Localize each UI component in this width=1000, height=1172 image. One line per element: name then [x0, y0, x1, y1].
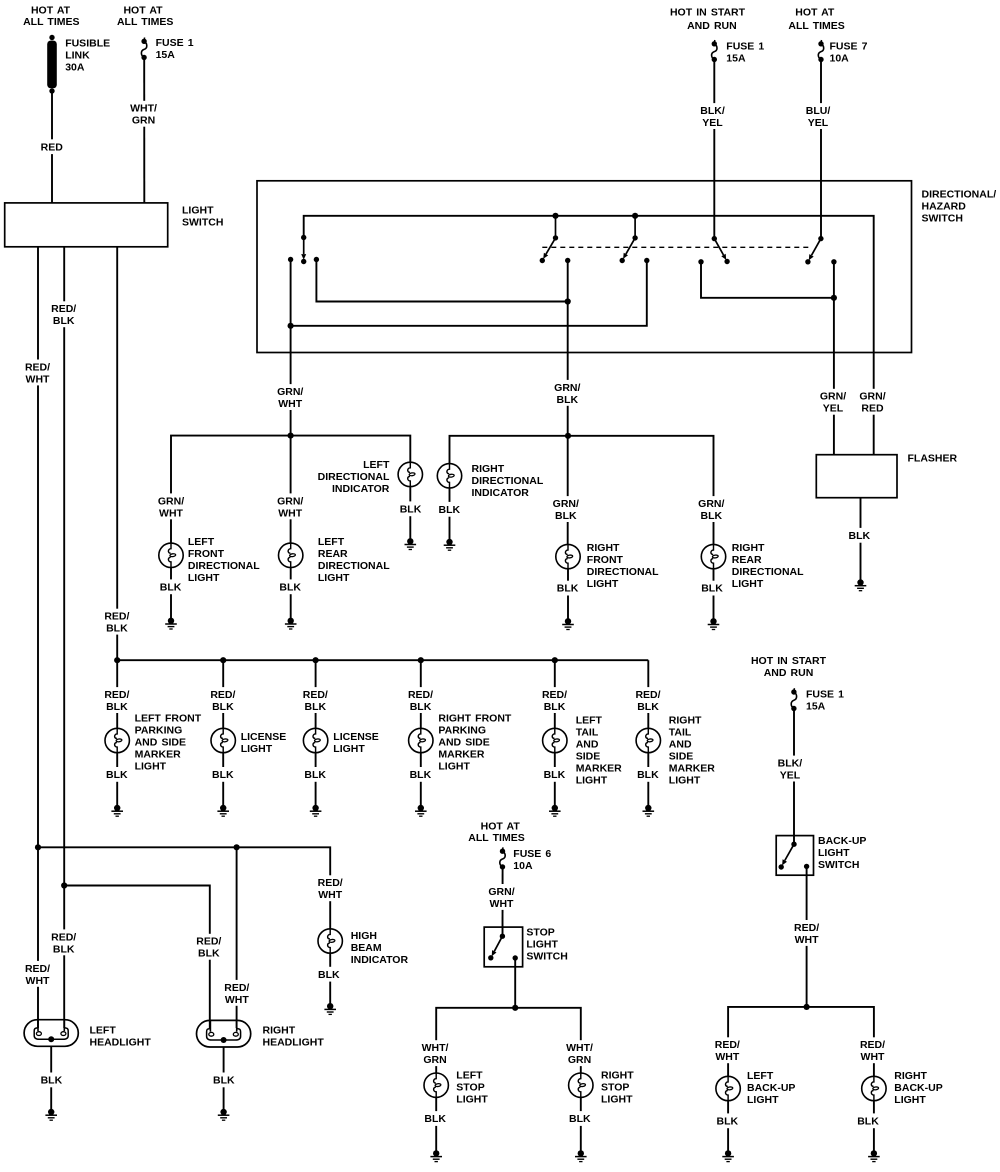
svg-text:MARKER: MARKER	[576, 763, 622, 775]
svg-text:LEFT: LEFT	[188, 536, 215, 548]
svg-text:FUSE 7: FUSE 7	[830, 40, 868, 52]
wire RED/BLK (light switch to parking lamp bus)	[102, 247, 132, 660]
svg-text:BLK: BLK	[544, 701, 566, 713]
left headlight	[24, 1020, 151, 1112]
right hazard-fed switch blade	[805, 236, 823, 265]
svg-text:DIRECTIONAL/: DIRECTIONAL/	[922, 188, 997, 200]
svg-text:BLK: BLK	[304, 769, 326, 781]
fuse F6 10A	[500, 847, 552, 872]
svg-text:GRN/: GRN/	[553, 498, 579, 510]
dashed mechanical linkage	[542, 246, 808, 248]
svg-text:BLK: BLK	[198, 948, 220, 960]
wire: hazard terminal to right output (inside switch)	[288, 260, 647, 329]
wire GRN/YEL (switch to flasher)	[818, 263, 848, 455]
wire WHT/GRN (stop switch to stop lights)	[419, 958, 596, 1073]
svg-text:AND RUN: AND RUN	[764, 667, 814, 679]
svg-text:RED/: RED/	[51, 931, 76, 943]
svg-text:BLK: BLK	[212, 701, 234, 713]
svg-text:BLK: BLK	[106, 701, 128, 713]
ground (left stop light)	[430, 1150, 442, 1161]
svg-text:YEL: YEL	[780, 770, 801, 782]
svg-text:FUSE 1: FUSE 1	[806, 688, 844, 700]
svg-text:FRONT: FRONT	[587, 554, 624, 566]
svg-text:YEL: YEL	[702, 117, 723, 129]
wire GRN/WHT (switch to left directional bus)	[275, 327, 306, 543]
svg-text:FUSE 6: FUSE 6	[513, 848, 551, 860]
svg-text:RED/: RED/	[51, 303, 76, 315]
right headlight	[197, 1020, 325, 1112]
svg-text:SIDE: SIDE	[576, 751, 601, 763]
svg-text:RED/: RED/	[794, 922, 819, 934]
svg-text:LIGHT: LIGHT	[135, 761, 167, 773]
svg-text:BLK: BLK	[106, 769, 128, 781]
light switch S1	[5, 203, 224, 247]
svg-text:INDICATOR: INDICATOR	[472, 487, 530, 499]
svg-text:DIRECTIONAL: DIRECTIONAL	[732, 566, 804, 578]
svg-text:MARKER: MARKER	[135, 749, 181, 761]
wire GRN/RED (switch to flasher)	[858, 353, 888, 455]
wire RED/BLK branch (to right headlight)	[61, 882, 224, 1028]
svg-text:RED: RED	[41, 141, 64, 153]
svg-text:DIRECTIONAL: DIRECTIONAL	[318, 560, 390, 572]
ground (high beam indicator)	[324, 1003, 336, 1014]
svg-text:RED/: RED/	[25, 963, 50, 975]
fusible link 30A	[47, 35, 110, 94]
svg-text:BLK: BLK	[106, 623, 128, 635]
left directional switch blade	[540, 216, 559, 263]
svg-text:RED/: RED/	[224, 982, 249, 994]
svg-text:RIGHT: RIGHT	[263, 1024, 296, 1036]
svg-text:WHT: WHT	[278, 398, 302, 410]
svg-text:PARKING: PARKING	[438, 725, 486, 737]
svg-text:LIGHT: LIGHT	[333, 743, 365, 755]
svg-text:BLK: BLK	[318, 969, 340, 981]
lamp: right front directional light	[556, 542, 660, 622]
ground (flasher)	[855, 579, 867, 590]
svg-text:RED/: RED/	[210, 689, 235, 701]
svg-text:BLK: BLK	[53, 943, 75, 955]
node: HOT AT ALL TIMES (feed 2)	[117, 5, 173, 29]
svg-text:LIGHT: LIGHT	[747, 1094, 779, 1106]
lamp: license light (right)	[303, 728, 379, 808]
svg-text:AND RUN: AND RUN	[687, 20, 737, 32]
svg-text:BLK: BLK	[410, 701, 432, 713]
wire RED/WHT (light switch to left headlight low beam)	[23, 247, 53, 1028]
stop light switch	[484, 927, 568, 967]
svg-text:PARKING: PARKING	[135, 725, 183, 737]
svg-text:LEFT: LEFT	[90, 1024, 117, 1036]
svg-text:ALL TIMES: ALL TIMES	[117, 16, 173, 28]
hazard switch terminals	[288, 257, 319, 262]
back-up light switch	[776, 835, 866, 875]
svg-text:10A: 10A	[513, 860, 533, 872]
svg-text:LIGHT: LIGHT	[456, 1093, 488, 1105]
svg-text:BLK: BLK	[439, 504, 461, 516]
svg-text:YEL: YEL	[808, 117, 829, 129]
ground (right stop light)	[575, 1150, 587, 1161]
svg-text:GRN: GRN	[568, 1054, 591, 1066]
svg-text:HOT IN START: HOT IN START	[670, 7, 746, 19]
wire BLK (flasher to ground)	[847, 498, 871, 583]
node: HOT AT ALL TIMES (feed 1)	[23, 5, 79, 29]
svg-text:LIGHT: LIGHT	[601, 1093, 633, 1105]
svg-text:LIGHT: LIGHT	[732, 578, 764, 590]
svg-text:YEL: YEL	[823, 403, 844, 415]
svg-text:BLK: BLK	[701, 583, 723, 595]
wire RED/BLK drop (d4)	[406, 660, 436, 728]
svg-text:30A: 30A	[65, 61, 85, 73]
ground (left front directional)	[165, 618, 177, 629]
svg-text:AND: AND	[669, 739, 692, 751]
svg-text:LEFT: LEFT	[576, 715, 603, 727]
svg-text:REAR: REAR	[732, 554, 762, 566]
svg-text:TAIL: TAIL	[669, 727, 692, 739]
svg-text:BLK/: BLK/	[700, 105, 725, 117]
svg-text:RED/: RED/	[408, 689, 433, 701]
wire: flasher output link (inside switch)	[701, 262, 837, 301]
wire RED/WHT (back-up switch to lights)	[712, 866, 887, 1076]
svg-text:GRN: GRN	[132, 115, 155, 127]
wire RED/BLK drop (d5)	[540, 660, 570, 728]
svg-text:LIGHT: LIGHT	[318, 572, 350, 584]
svg-text:WHT: WHT	[795, 934, 819, 946]
svg-text:WHT: WHT	[278, 507, 302, 519]
svg-text:RED/: RED/	[542, 689, 567, 701]
svg-text:HEADLIGHT: HEADLIGHT	[263, 1036, 325, 1048]
ground (right back-up light)	[868, 1150, 880, 1161]
svg-text:HOT AT: HOT AT	[795, 7, 835, 19]
svg-text:LIGHT: LIGHT	[182, 204, 214, 216]
svg-text:BLK: BLK	[701, 510, 723, 522]
node: HOT AT ALL TIMES (hazard feed)	[788, 7, 844, 32]
svg-text:GRN/: GRN/	[277, 386, 303, 398]
svg-text:TAIL: TAIL	[576, 727, 599, 739]
wire BLK/YEL (fuse 1 to directional switch)	[699, 62, 727, 239]
svg-text:WHT: WHT	[159, 507, 183, 519]
lamp: left tail and side marker light	[542, 715, 622, 808]
svg-text:BLK: BLK	[717, 1115, 739, 1127]
ground (d1)	[111, 805, 123, 816]
svg-text:BLK: BLK	[400, 503, 422, 515]
svg-text:BACK-UP: BACK-UP	[818, 835, 866, 847]
svg-text:SWITCH: SWITCH	[182, 216, 223, 228]
hazard switch pole contact	[301, 235, 306, 264]
wire RED/BLK drop (d3)	[300, 660, 330, 728]
fuse F7 10A	[818, 40, 867, 64]
svg-text:AND: AND	[576, 739, 599, 751]
lamp: left directional indicator	[318, 459, 423, 541]
fuse F1 15A (back-up)	[791, 688, 844, 712]
wire RED/BLK drop (d6)	[633, 660, 663, 728]
right directional switch blade	[620, 216, 638, 263]
svg-text:HIGH: HIGH	[351, 930, 377, 942]
ground (right directional indicator)	[444, 539, 456, 550]
ground (right rear directional)	[708, 618, 720, 629]
fuse F1 15A (directional)	[712, 40, 765, 64]
svg-text:RIGHT FRONT: RIGHT FRONT	[438, 713, 512, 725]
svg-text:SIDE: SIDE	[669, 751, 694, 763]
svg-text:GRN/: GRN/	[859, 391, 885, 403]
svg-text:BLK: BLK	[557, 583, 579, 595]
svg-text:RIGHT: RIGHT	[472, 463, 505, 475]
svg-text:FRONT: FRONT	[188, 548, 225, 560]
wire BLU/YEL (fuse 7 to hazard switch)	[804, 62, 832, 239]
ground (d4)	[415, 805, 427, 816]
svg-text:WHT: WHT	[715, 1051, 739, 1063]
flasher unit	[816, 453, 957, 498]
svg-text:MARKER: MARKER	[438, 749, 484, 761]
lamp: right stop light	[568, 1069, 634, 1153]
lamp: high beam indicator	[317, 929, 409, 1006]
svg-text:10A: 10A	[830, 52, 850, 64]
node: HOT AT ALL TIMES (stop light feed)	[468, 820, 524, 844]
lamp: right rear directional light	[700, 542, 804, 622]
svg-text:WHT: WHT	[225, 994, 249, 1006]
svg-text:RED/: RED/	[104, 689, 129, 701]
svg-text:RIGHT: RIGHT	[587, 542, 620, 554]
directional/hazard switch box	[257, 181, 996, 353]
lamp: left front directional light	[159, 536, 261, 621]
svg-text:GRN/: GRN/	[820, 391, 846, 403]
svg-text:HEADLIGHT: HEADLIGHT	[90, 1036, 152, 1048]
wire: left directional bus	[156, 436, 411, 543]
svg-text:HAZARD: HAZARD	[922, 200, 967, 212]
svg-text:RED/: RED/	[715, 1039, 740, 1051]
svg-text:LIGHT: LIGHT	[241, 743, 273, 755]
wire RED/WHT (bus to right headlight)	[222, 847, 252, 1028]
svg-text:RIGHT: RIGHT	[669, 715, 702, 727]
svg-text:BLK: BLK	[569, 1113, 591, 1125]
lamp: left back-up light	[715, 1070, 795, 1153]
svg-text:LEFT: LEFT	[318, 536, 345, 548]
svg-text:MARKER: MARKER	[669, 763, 715, 775]
svg-text:BLK: BLK	[849, 530, 871, 542]
ground (d2)	[217, 805, 229, 816]
wire RED/BLK drop (d1)	[102, 660, 132, 728]
svg-text:LIGHT: LIGHT	[438, 761, 470, 773]
svg-text:GRN/: GRN/	[698, 498, 724, 510]
svg-text:15A: 15A	[726, 52, 746, 64]
fuse F1 15A	[141, 37, 193, 61]
svg-text:WHT/: WHT/	[422, 1042, 449, 1054]
svg-text:REAR: REAR	[318, 548, 348, 560]
svg-text:ALL TIMES: ALL TIMES	[788, 20, 844, 32]
svg-text:BLK: BLK	[410, 769, 432, 781]
lamp: left stop light	[423, 1069, 488, 1153]
ground (left rear directional)	[285, 618, 297, 629]
svg-text:WHT: WHT	[318, 889, 342, 901]
svg-text:WHT: WHT	[26, 975, 50, 987]
ground (d3)	[310, 805, 322, 816]
svg-text:BLK: BLK	[213, 1075, 235, 1087]
ground (right front directional)	[562, 618, 574, 629]
svg-text:LIGHT: LIGHT	[576, 775, 608, 787]
lamp: left front parking and side marker light	[105, 713, 202, 808]
svg-text:RIGHT: RIGHT	[601, 1069, 634, 1081]
svg-text:LIGHT: LIGHT	[894, 1094, 926, 1106]
wire RED/BLK (light switch to left headlight high beam)	[49, 247, 79, 1028]
svg-text:DIRECTIONAL: DIRECTIONAL	[188, 560, 260, 572]
lamp: right front parking and side marker light	[408, 713, 512, 808]
svg-text:LIGHT: LIGHT	[669, 775, 701, 787]
ground (right headlight)	[218, 1109, 230, 1120]
svg-text:AND SIDE: AND SIDE	[438, 737, 489, 749]
lamp: right directional indicator	[437, 463, 544, 542]
svg-text:SWITCH: SWITCH	[526, 951, 567, 963]
svg-text:RED/: RED/	[196, 936, 221, 948]
wire: flasher feed bus (inside switch)	[304, 213, 874, 353]
ground (left headlight)	[45, 1109, 57, 1120]
wire GRN/WHT (fuse 6 to stop light switch)	[486, 869, 517, 936]
svg-text:HOT AT: HOT AT	[123, 5, 163, 17]
svg-text:BLK/: BLK/	[778, 758, 803, 770]
ground (left directional indicator)	[405, 538, 417, 549]
svg-text:DIRECTIONAL: DIRECTIONAL	[318, 471, 390, 483]
node: HOT IN START AND RUN (back-up feed)	[751, 655, 827, 679]
svg-text:RED/: RED/	[303, 689, 328, 701]
svg-text:RED/: RED/	[318, 877, 343, 889]
wire WHT/GRN (fuse 1 to light switch)	[128, 60, 160, 203]
wire BLK/YEL (fuse to back-up switch)	[776, 711, 804, 845]
svg-text:WHT: WHT	[490, 898, 514, 910]
svg-text:ALL TIMES: ALL TIMES	[468, 832, 524, 844]
lamp: right tail and side marker light	[636, 715, 715, 808]
svg-text:WHT: WHT	[861, 1051, 885, 1063]
svg-text:BLK: BLK	[53, 315, 75, 327]
svg-text:RED/: RED/	[635, 689, 660, 701]
node: HOT IN START AND RUN (directional feed)	[670, 7, 746, 32]
lamp: license light (left)	[211, 728, 286, 808]
svg-text:RED/: RED/	[25, 361, 50, 373]
wire: parking lamp bus RED/BLK	[114, 657, 648, 663]
svg-text:WHT/: WHT/	[566, 1042, 593, 1054]
svg-text:LIGHT: LIGHT	[818, 847, 850, 859]
svg-text:WHT/: WHT/	[130, 103, 157, 115]
svg-text:BACK-UP: BACK-UP	[747, 1082, 795, 1094]
svg-text:LEFT: LEFT	[363, 459, 390, 471]
wire RED/BLK drop (d2)	[208, 660, 238, 728]
svg-text:DIRECTIONAL: DIRECTIONAL	[472, 475, 544, 487]
svg-text:BEAM: BEAM	[351, 942, 382, 954]
svg-text:HOT AT: HOT AT	[481, 820, 521, 832]
svg-text:BLK: BLK	[305, 701, 327, 713]
svg-text:LICENSE: LICENSE	[333, 731, 379, 743]
svg-text:BLK: BLK	[212, 769, 234, 781]
svg-text:WHT: WHT	[26, 373, 50, 385]
svg-text:LINK: LINK	[65, 49, 90, 61]
svg-text:BLK: BLK	[424, 1113, 446, 1125]
svg-text:BLK: BLK	[41, 1075, 63, 1087]
ground (left back-up light)	[722, 1150, 734, 1161]
svg-text:STOP: STOP	[601, 1081, 629, 1093]
svg-text:RED: RED	[861, 403, 884, 415]
svg-text:BLK: BLK	[544, 769, 566, 781]
lamp: right back-up light	[856, 1070, 943, 1153]
wire: hazard terminal to GRN/BLK output (inside switch)	[316, 260, 570, 305]
svg-text:SWITCH: SWITCH	[818, 859, 859, 871]
svg-text:STOP: STOP	[456, 1081, 484, 1093]
svg-text:BLK: BLK	[160, 581, 182, 593]
wire RED (fusible link to light switch)	[39, 94, 65, 203]
svg-text:FLASHER: FLASHER	[908, 453, 958, 465]
ground (d6)	[643, 805, 655, 816]
lamp: left rear directional light	[278, 536, 390, 621]
svg-text:GRN/: GRN/	[554, 382, 580, 394]
svg-text:RIGHT: RIGHT	[732, 542, 765, 554]
svg-text:LIGHT: LIGHT	[587, 578, 619, 590]
svg-text:LICENSE: LICENSE	[241, 731, 287, 743]
svg-text:BLK: BLK	[637, 769, 659, 781]
svg-text:BLU/: BLU/	[806, 105, 831, 117]
wire: RED/WHT headlight bus	[35, 844, 345, 929]
svg-text:LIGHT: LIGHT	[526, 939, 558, 951]
svg-text:STOP: STOP	[526, 927, 554, 939]
svg-text:GRN/: GRN/	[277, 495, 303, 507]
svg-text:BLK: BLK	[555, 510, 577, 522]
svg-text:FUSIBLE: FUSIBLE	[65, 37, 110, 49]
svg-text:RED/: RED/	[104, 611, 129, 623]
svg-text:BLK: BLK	[857, 1115, 879, 1127]
svg-text:BLK: BLK	[279, 581, 301, 593]
switch terminal contacts (output row)	[565, 258, 837, 265]
svg-text:GRN/: GRN/	[488, 886, 514, 898]
svg-text:LEFT FRONT: LEFT FRONT	[135, 713, 202, 725]
svg-text:BLK: BLK	[637, 701, 659, 713]
svg-text:LEFT: LEFT	[747, 1070, 774, 1082]
svg-text:INDICATOR: INDICATOR	[332, 483, 390, 495]
svg-text:AND SIDE: AND SIDE	[135, 737, 186, 749]
svg-text:DIRECTIONAL: DIRECTIONAL	[587, 566, 659, 578]
svg-text:BACK-UP: BACK-UP	[894, 1082, 942, 1094]
svg-text:GRN: GRN	[423, 1054, 446, 1066]
svg-text:SWITCH: SWITCH	[922, 212, 963, 224]
svg-text:ALL TIMES: ALL TIMES	[23, 16, 79, 28]
svg-text:RIGHT: RIGHT	[894, 1070, 927, 1082]
left hazard-fed switch blade	[712, 236, 730, 264]
svg-text:RED/: RED/	[860, 1039, 885, 1051]
svg-text:BLK: BLK	[557, 394, 579, 406]
svg-text:15A: 15A	[156, 49, 176, 61]
wire GRN/BLK (switch to right directional bus)	[550, 262, 583, 544]
svg-text:HOT AT: HOT AT	[31, 5, 71, 17]
svg-text:FUSE 1: FUSE 1	[156, 37, 194, 49]
svg-text:15A: 15A	[806, 700, 826, 712]
svg-text:GRN/: GRN/	[158, 495, 184, 507]
wire: right directional bus	[450, 436, 727, 544]
svg-text:LEFT: LEFT	[456, 1069, 483, 1081]
svg-text:HOT IN START: HOT IN START	[751, 655, 827, 667]
svg-text:FUSE 1: FUSE 1	[726, 40, 764, 52]
svg-text:LIGHT: LIGHT	[188, 572, 220, 584]
svg-text:INDICATOR: INDICATOR	[351, 954, 409, 966]
ground (d5)	[549, 805, 561, 816]
